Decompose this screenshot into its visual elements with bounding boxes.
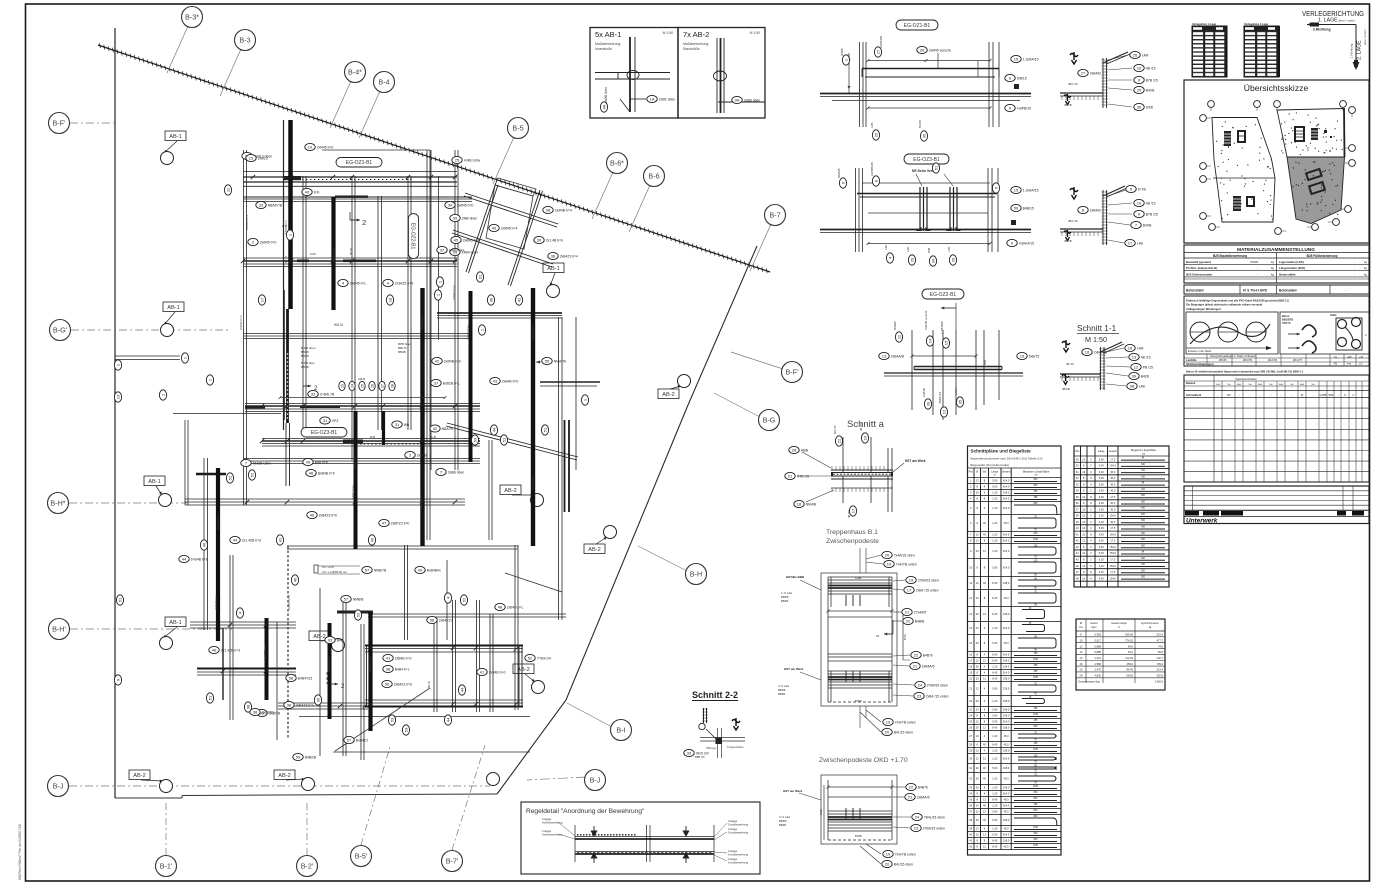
plan label 56 [382, 680, 412, 687]
svg-text:B25 Ortbetonmatte: B25 Ortbetonmatte [1186, 272, 1212, 276]
beam band y625 [190, 621, 296, 623]
plan label 10 [305, 143, 334, 150]
svg-text:725,2: 725,2 [1157, 662, 1164, 666]
svg-text:0,617: 0,617 [1095, 638, 1102, 642]
svg-text:138,0: 138,0 [1003, 699, 1010, 703]
svg-text:2x1.4B b=b: 2x1.4B b=b [546, 238, 563, 242]
svg-text:10: 10 [308, 144, 313, 149]
svg-text:-: - [1260, 394, 1261, 397]
Regeldetail box [521, 802, 760, 874]
svg-text:27B4/15 oben: 27B4/15 oben [918, 578, 939, 582]
svg-text:57: 57 [365, 567, 370, 572]
svg-text:Ein Biegungen (allein) elektri: Ein Biegungen (allein) elektrische nullw… [1186, 303, 1262, 307]
svg-text:16: 16 [1128, 345, 1133, 350]
svg-text:1,20: 1,20 [992, 827, 998, 831]
ground line EG-OZ3 [820, 229, 1031, 231]
plan rotated label 1 [581, 395, 588, 405]
svg-text:B-4: B-4 [378, 78, 389, 87]
svg-text:4.BPB/15: 4.BPB/15 [1017, 106, 1031, 110]
svg-text:26: 26 [370, 384, 374, 388]
beam band y502 [185, 498, 465, 500]
svg-text:140,7: 140,7 [1157, 656, 1164, 660]
svg-text:8,45: 8,45 [992, 612, 998, 616]
svg-text:4B/B: 4B/B [801, 448, 809, 452]
svg-text:2: 2 [362, 218, 366, 227]
plan label 48 [495, 603, 524, 610]
right building outline [1277, 109, 1345, 158]
plan rotated label 41 [276, 535, 283, 545]
vertical pair x379 [377, 196, 379, 430]
svg-text:15: 15 [1014, 187, 1019, 192]
svg-text:B-G': B-G' [53, 326, 68, 335]
left small band y358 [115, 355, 180, 357]
svg-text:BT-B: BT-B [349, 248, 353, 255]
svg-text:Profilst. (walzprofile B): Profilst. (walzprofile B) [1186, 266, 1217, 270]
svg-text:154,0: 154,0 [1110, 464, 1117, 468]
svg-text:-: - [1292, 394, 1293, 397]
svg-text:Übersichtsskizze: Übersichtsskizze [1244, 83, 1309, 93]
svg-text:39: 39 [925, 401, 930, 406]
svg-text:BxB: BxB [1237, 384, 1242, 386]
vertical x284 [283, 120, 285, 430]
stadium EG-OZ2-B1 vertical [408, 214, 418, 259]
svg-text:Ø8=45: Ø8=45 [1219, 359, 1227, 362]
svg-text:EG-OZ2-B1: EG-OZ2-B1 [410, 223, 416, 250]
svg-text:21: 21 [788, 473, 793, 478]
grid bubble B-5 [493, 137, 514, 184]
line y413 [173, 413, 281, 415]
right room band y645-706 [365, 645, 523, 647]
beam band right-room top y315 [437, 312, 562, 314]
svg-text:36,0: 36,0 [1110, 507, 1116, 511]
svg-text:17,5: 17,5 [1110, 526, 1116, 530]
svg-text:HST am Werk: HST am Werk [784, 667, 804, 671]
svg-text:138,0: 138,0 [1003, 659, 1010, 663]
grid bubble B-1&#39; [165, 800, 167, 855]
svg-text:7x AB-2: 7x AB-2 [683, 30, 709, 39]
svg-text:52: 52 [227, 475, 232, 480]
leader line y150 [322, 149, 430, 151]
plan label 7 [241, 459, 272, 466]
svg-text:25: 25 [360, 384, 364, 388]
svg-text:5,45: 5,45 [1099, 551, 1105, 555]
svg-text:477,7: 477,7 [1157, 638, 1164, 642]
svg-text:39: 39 [453, 215, 458, 220]
labels cross-section OZ1 [1130, 51, 1149, 58]
bending diagram circles [1186, 312, 1278, 354]
svg-text:2xB4Z3 b=s: 2xB4Z3 b=s [466, 324, 470, 340]
svg-text:kg Durchmesser: kg Durchmesser [1141, 622, 1159, 625]
svg-text:B-J: B-J [53, 782, 64, 791]
svg-text:B-B: B-B [370, 435, 375, 439]
svg-text:5,90: 5,90 [992, 833, 998, 837]
svg-text:52: 52 [528, 655, 533, 660]
svg-text:Treppenhaus: Treppenhaus [727, 745, 744, 749]
svg-text:L4B: L4B [1139, 384, 1146, 388]
svg-text:2xB4Z3 b=s: 2xB4Z3 b=s [239, 314, 243, 330]
svg-text:NF-Schn Verl.: NF-Schn Verl. [912, 169, 934, 173]
grid bubble B-4 [359, 91, 380, 138]
svg-text:7x4xTB unten: 7x4xTB unten [895, 852, 916, 856]
svg-text:B4XB: B4XB [1146, 88, 1155, 92]
svg-text:18: 18 [797, 501, 802, 506]
svg-text:b=b: b=b [1347, 363, 1352, 366]
svg-text:138,0: 138,0 [1003, 708, 1010, 712]
svg-text:NMB/7B: NMB/7B [374, 568, 387, 572]
svg-text:33: 33 [687, 750, 692, 755]
svg-text:5xB/75: 5xB/75 [1029, 354, 1040, 358]
svg-text:AB-1: AB-1 [547, 266, 559, 272]
svg-text:2xB4 /15 unten: 2xB4 /15 unten [916, 588, 939, 592]
plan label 45 [303, 458, 328, 465]
svg-text:5,90: 5,90 [992, 566, 998, 570]
svg-text:21: 21 [908, 794, 913, 799]
svg-text:BxBZB b=L: BxBZB b=L [443, 381, 460, 385]
svg-text:27: 27 [1081, 70, 1086, 75]
vertical x438 [438, 176, 440, 340]
plan label 39 [450, 214, 477, 221]
plan rotated label 40 [368, 535, 375, 545]
plan label 59 [293, 753, 317, 760]
svg-text:Länge: Länge [1098, 451, 1105, 453]
grid bubble B-G [714, 393, 760, 417]
svg-text:4B /15: 4B /15 [1146, 201, 1156, 205]
svg-text:2xB4Z3 b=s: 2xB4Z3 b=s [216, 514, 220, 530]
svg-text:41: 41 [277, 537, 282, 542]
svg-text:1,20: 1,20 [992, 786, 998, 790]
plan rotated label 38 [244, 702, 251, 712]
svg-text:44: 44 [233, 537, 238, 542]
svg-text:Pos: Pos [969, 471, 974, 474]
svg-text:31: 31 [395, 422, 400, 427]
svg-text:13: 13 [115, 394, 120, 399]
arrow mark 2 lower [330, 683, 338, 685]
plan label 40 [302, 188, 320, 195]
thick reinforcement bar x290 [288, 120, 293, 309]
svg-text:2xB4A/B: 2xB4A/B [1094, 350, 1108, 354]
svg-text:WB: WB [983, 360, 987, 365]
svg-text:Betonstahl: Betonstahl [1186, 289, 1204, 293]
skizze grid bubbles [1208, 101, 1215, 108]
svg-text:17,5: 17,5 [1110, 570, 1116, 574]
svg-text:26: 26 [1133, 52, 1138, 57]
thick reinforcement bar x266 [265, 618, 269, 700]
svg-text:5,45: 5,45 [1099, 482, 1105, 486]
svg-text:Elektrisch leitfähige Gegenstä: Elektrisch leitfähige Gegenstände und al… [1186, 299, 1289, 303]
svg-text:Spannbetonhülsen: Spannbetonhülsen [1235, 377, 1257, 381]
svg-text:Auflagerungen /Bindungen:: Auflagerungen /Bindungen: [1186, 307, 1221, 311]
Treppenhaus section mark arrow [884, 633, 893, 635]
grid bubble B-3 [220, 49, 241, 96]
svg-text:26: 26 [920, 47, 925, 52]
svg-text:kg: kg [1364, 272, 1367, 276]
svg-text:L4M: L4M [1142, 53, 1149, 57]
svg-text:M4 /15: M4 /15 [833, 425, 837, 434]
svg-text:IV S TG-I-I EPD: IV S TG-I-I EPD [1243, 289, 1268, 293]
svg-text:1030: 1030 [1033, 827, 1039, 829]
thick reinforcement bar x370 [368, 612, 372, 731]
svg-text:53: 53 [472, 437, 477, 442]
Verlegerichtung arrows [1307, 24, 1356, 26]
beam band y261 [243, 257, 457, 259]
svg-text:-: - [1354, 266, 1355, 270]
svg-text:2x1.4ZB b=d: 2x1.4ZB b=d [221, 648, 240, 652]
anchor circle plain [487, 773, 500, 786]
svg-text:53: 53 [389, 717, 394, 722]
svg-text:86,40: 86,40 [1127, 668, 1134, 672]
svg-text:46: 46 [201, 542, 206, 547]
Materialzusammenstellung header [1184, 245, 1369, 283]
plan label 55 [542, 357, 567, 364]
svg-text:Ø12=65: Ø12=65 [1268, 359, 1278, 362]
svg-text:2xBB üben: 2xBB üben [744, 98, 761, 102]
svg-text:27B4/15 unten: 27B4/15 unten [923, 826, 945, 830]
biegeliste table 2 [1074, 446, 1169, 587]
svg-text:BT-B: BT-B [427, 681, 431, 688]
svg-text:5,90: 5,90 [992, 485, 998, 489]
svg-text:55: 55 [545, 358, 550, 363]
svg-text:2xPBB4/B: 2xPBB4/B [870, 162, 874, 176]
svg-text:23: 23 [914, 825, 919, 830]
svg-text:1,20: 1,20 [992, 539, 998, 543]
svg-text:51: 51 [542, 427, 547, 432]
plan rotated label 41 [515, 295, 522, 305]
svg-text:Stützbetonlängen (ges): Stützbetonlängen (ges) [1186, 363, 1214, 366]
svg-text:B4B/B: B4B/B [915, 619, 925, 623]
plan rotated label 1 [206, 375, 213, 385]
plan rotated label 13 [114, 392, 121, 402]
svg-text:1,20: 1,20 [992, 777, 998, 781]
plan label 57 [362, 566, 387, 573]
svg-text:7x4xTB unten: 7x4xTB unten [895, 720, 916, 724]
svg-text:138,0: 138,0 [1003, 766, 1010, 770]
svg-text:-: - [1354, 260, 1355, 264]
svg-text:2xBZB3: 2xBZB3 [262, 710, 274, 714]
mini rows under diagrams [1184, 357, 1369, 359]
plan rotated label 53 [402, 725, 409, 735]
svg-text:5,45: 5,45 [1099, 576, 1105, 580]
svg-text:37: 37 [440, 247, 445, 252]
svg-text:27: 27 [380, 384, 384, 388]
detail EG-OZ1-B1 [896, 20, 938, 30]
svg-text:19: 19 [886, 851, 891, 856]
svg-text:L4B: L4B [884, 245, 888, 250]
svg-text:36,0: 36,0 [1110, 489, 1116, 493]
svg-text:B4B4YZ3: B4B4YZ3 [298, 676, 313, 680]
svg-text:57: 57 [347, 737, 352, 742]
svg-text:614,0: 614,0 [1003, 485, 1010, 489]
svg-text:BxB: BxB [1258, 384, 1263, 386]
svg-text:M 1:50: M 1:50 [663, 31, 673, 35]
plan label 46 [306, 469, 335, 476]
tilted strip B [508, 190, 540, 285]
svg-text:2.Richtung: 2.Richtung [1313, 28, 1331, 32]
svg-text:24: 24 [918, 682, 923, 687]
svg-text:29: 29 [950, 257, 955, 262]
svg-text:51: 51 [933, 165, 938, 170]
svg-text:2xB4/B: 2xB4/B [1090, 71, 1102, 75]
plan rotated label 52 [354, 610, 361, 620]
svg-text:Übergreifungslängen It. Statik: Übergreifungslängen It. Statik mit Beiwe… [1210, 355, 1256, 358]
svg-text:AB-2: AB-2 [588, 547, 600, 553]
svg-text:17: 17 [259, 297, 264, 302]
anchor marker AB-2 [584, 544, 605, 554]
svg-text:21: 21 [913, 663, 918, 668]
anchor marker AB-1 [165, 131, 186, 141]
svg-text:112,20: 112,20 [1125, 656, 1133, 660]
svg-text:UB-B: UB-B [358, 377, 365, 381]
schedule grid table header [1184, 375, 1369, 482]
svg-text:B7B /15: B7B /15 [1146, 212, 1158, 216]
svg-text:WS-M: WS-M [334, 323, 343, 327]
thick reinforcement bar x422 [420, 288, 424, 546]
svg-text:2x3AZ5 b=4: 2x3AZ5 b=4 [395, 281, 413, 285]
plan bottom boundary line [115, 797, 182, 799]
grid bubble B-6* [592, 172, 613, 219]
svg-text:Schnitt 1-1: Schnitt 1-1 [1077, 324, 1117, 333]
left building windows [1224, 131, 1231, 146]
detail EG-OZ2-B1 [922, 289, 964, 299]
labels Schnitt 1-1 [1125, 344, 1144, 351]
svg-text:1030: 1030 [1033, 845, 1039, 847]
svg-text:20: 20 [885, 729, 890, 734]
svg-text:Ø14=75: Ø14=75 [1293, 359, 1303, 362]
svg-text:251,4: 251,4 [1157, 633, 1164, 637]
svg-text:154,0: 154,0 [1110, 545, 1117, 549]
svg-text:27B4/15 oben: 27B4/15 oben [927, 683, 948, 687]
svg-text:2xØ4B b=4: 2xØ4B b=4 [555, 208, 572, 212]
Zwischenpodeste OKD drawing [821, 775, 897, 844]
svg-text:Öffnung: Öffnung [706, 746, 716, 750]
svg-text:B4XB: B4XB [918, 120, 922, 128]
svg-text:1,20: 1,20 [992, 792, 998, 796]
svg-text:2-lagige: 2-lagige [728, 849, 738, 853]
svg-text:B.50: B.50 [903, 634, 907, 640]
svg-text:Lastfalle: Lastfalle [1186, 358, 1197, 362]
grid bubble B-2&#39; [306, 800, 308, 855]
grid bubble B-H [638, 546, 687, 571]
svg-text:36: 36 [315, 697, 320, 702]
Schnitt 2-2 drawing [703, 708, 705, 723]
plan label 39 [450, 248, 478, 255]
svg-text:614,0: 614,0 [1003, 539, 1010, 543]
svg-text:614,0: 614,0 [1003, 506, 1010, 510]
svg-text:AB-2: AB-2 [313, 634, 325, 640]
svg-text:Lagermatte (2,4/6): Lagermatte (2,4/6) [1279, 260, 1304, 264]
rotated label row y386 [339, 381, 345, 390]
svg-text:32: 32 [433, 426, 438, 431]
svg-text:56: 56 [385, 681, 390, 686]
svg-text:B-H*: B-H* [50, 499, 65, 508]
svg-text:L4M: L4M [1137, 346, 1144, 350]
Treppenhaus B.1 podest drawing [821, 573, 897, 706]
svg-text:BxB: BxB [1279, 384, 1284, 386]
svg-text:-: - [1338, 394, 1339, 397]
svg-text:AB-2: AB-2 [133, 773, 145, 779]
plan rotated label 1 [114, 360, 121, 370]
beam band EG-OZ1 y178 [243, 171, 457, 173]
svg-text:B7B /15: B7B /15 [1146, 78, 1158, 82]
svg-text:36,0: 36,0 [1110, 470, 1116, 474]
svg-text:L4B: L4B [906, 247, 910, 252]
plan rotated label 1 [434, 290, 441, 300]
svg-text:B-5': B-5' [355, 852, 368, 861]
band y384 right [540, 381, 600, 383]
svg-text:138,0: 138,0 [1003, 612, 1010, 616]
svg-text:48: 48 [498, 604, 503, 609]
svg-text:NMA/B: NMA/B [837, 168, 841, 178]
svg-text:2xØ45 b=b: 2xØ45 b=b [317, 145, 334, 149]
svg-text:64,0: 64,0 [1128, 650, 1134, 654]
svg-text:2xB4B b=d: 2xB4B b=d [489, 670, 506, 674]
svg-text:2xB4Z3 b=s: 2xB4Z3 b=s [245, 214, 249, 230]
svg-text:1.1B4A/15: 1.1B4A/15 [1023, 188, 1039, 192]
svg-text:25: 25 [873, 132, 878, 137]
svg-text:MATERIALZUSAMMENSTELLUNG: MATERIALZUSAMMENSTELLUNG [1237, 247, 1315, 253]
labels cross-section OZ3 [1126, 185, 1147, 192]
svg-text:Biegerollendurchmesser nach DI: Biegerollendurchmesser nach DIN 1045-1-2… [971, 457, 1043, 461]
svg-text:B-3: B-3 [239, 36, 250, 45]
svg-text:1030: 1030 [1033, 786, 1039, 788]
svg-text:BB4B: BB4B [301, 354, 309, 358]
anchor glyph OZ1a [1070, 52, 1078, 64]
plan right boundary diagonal [497, 246, 757, 794]
svg-text:m: m [994, 474, 996, 477]
svg-text:kg: kg [1271, 260, 1274, 264]
svg-text:Randstöße: Randstöße [683, 47, 700, 51]
svg-text:03: 03 [328, 637, 333, 642]
svg-text:38: 38 [287, 702, 292, 707]
svg-text:27: 27 [875, 49, 880, 54]
svg-text:BZ3: BZ3 [1329, 393, 1334, 397]
thick reinforcement bar x333 [331, 197, 335, 310]
svg-text:1,20: 1,20 [992, 734, 998, 738]
svg-text:Grundbewehrung: Grundbewehrung [728, 831, 749, 835]
tilted cross strip D [453, 230, 553, 264]
svg-text:6,20: 6,20 [1099, 501, 1105, 505]
labels EG-OZ1 [842, 55, 849, 65]
svg-text:154,0: 154,0 [1110, 564, 1117, 568]
svg-text:02: 02 [876, 634, 880, 638]
svg-text:138,0: 138,0 [1003, 581, 1010, 585]
svg-text:Zwischenpodeste: Zwischenpodeste [826, 538, 879, 545]
thick bar x355 [354, 411, 358, 549]
svg-text:B4B7b: B4B7b [918, 785, 928, 789]
svg-text:84,0: 84,0 [1128, 644, 1134, 648]
vertical pair x340 [319, 588, 321, 756]
svg-text:20: 20 [885, 861, 890, 866]
vertical x447 lower [446, 560, 448, 640]
svg-text:2xB4Z3 b=s: 2xB4Z3 b=s [368, 656, 372, 672]
plan rotated label 18 [386, 295, 393, 305]
svg-text:4B /15: 4B /15 [1141, 355, 1151, 359]
plan rotated label 49 [487, 295, 494, 305]
left building outline [1212, 118, 1275, 223]
plan label 4 [338, 279, 367, 286]
svg-text:2xB4Z3 b=s: 2xB4Z3 b=s [296, 703, 314, 707]
svg-text:52: 52 [249, 472, 254, 477]
plan label 57 [341, 595, 364, 602]
svg-text:8,45: 8,45 [992, 659, 998, 663]
svg-text:40: 40 [369, 537, 374, 542]
svg-text:5,45: 5,45 [1099, 489, 1105, 493]
svg-text:1030: 1030 [1033, 714, 1039, 716]
svg-text:49: 49 [488, 297, 493, 302]
plan rotated label 44 [458, 685, 465, 695]
plan label 3 [405, 451, 428, 458]
svg-text:6,20: 6,20 [1099, 495, 1105, 499]
Schnitt a drawing [842, 437, 844, 503]
